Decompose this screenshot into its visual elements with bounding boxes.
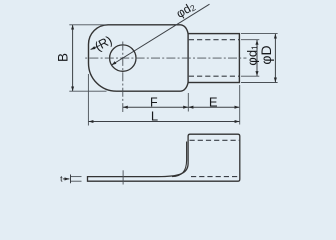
bottom transition fillet — [181, 83, 189, 92]
t dimension line — [70, 175, 72, 184]
E dimension line — [189, 106, 240, 108]
phi-d1 extension top — [241, 39, 259, 41]
leader (R) — [91, 45, 100, 49]
svg-text:B: B — [56, 53, 71, 62]
side inner hidden line bottom — [191, 176, 238, 178]
svg-text:E: E — [209, 94, 218, 109]
side inner bend curve — [172, 142, 187, 177]
hole center tick — [122, 170, 124, 184]
side outline — [88, 134, 240, 181]
L right extension — [239, 85, 241, 125]
leader d2 — [112, 4, 210, 65]
side inner hidden line top — [190, 139, 240, 141]
L dimension line — [89, 121, 240, 123]
hole — [110, 45, 136, 71]
F dimension line — [123, 106, 188, 108]
phi-D extension bottom — [241, 82, 278, 84]
t extension top — [70, 176, 81, 178]
phi-D dimension line — [274, 34, 276, 82]
barrel outline — [188, 34, 239, 83]
svg-text:L: L — [151, 109, 158, 124]
barrel inner hidden line top — [189, 39, 240, 41]
t extension bottom — [70, 180, 81, 182]
phi-d1 dimension line — [256, 40, 258, 76]
svg-text:φD: φD — [258, 45, 274, 64]
B extension top — [69, 24, 106, 26]
svg-text:F: F — [150, 96, 158, 110]
top transition fillet — [181, 25, 189, 34]
B dimension line — [72, 25, 74, 91]
barrel inner hidden line bottom — [189, 75, 240, 77]
phi-D extension top — [241, 33, 278, 35]
F/E junction extension — [187, 93, 189, 112]
t leader — [63, 178, 70, 180]
B extension bottom — [69, 90, 106, 92]
tongue outline — [89, 25, 181, 91]
horizontal centerline — [84, 57, 247, 59]
phi-d1 extension bottom — [241, 75, 259, 77]
vertical centerline of hole (also F extension) — [122, 42, 124, 113]
L left extension — [87, 74, 89, 126]
